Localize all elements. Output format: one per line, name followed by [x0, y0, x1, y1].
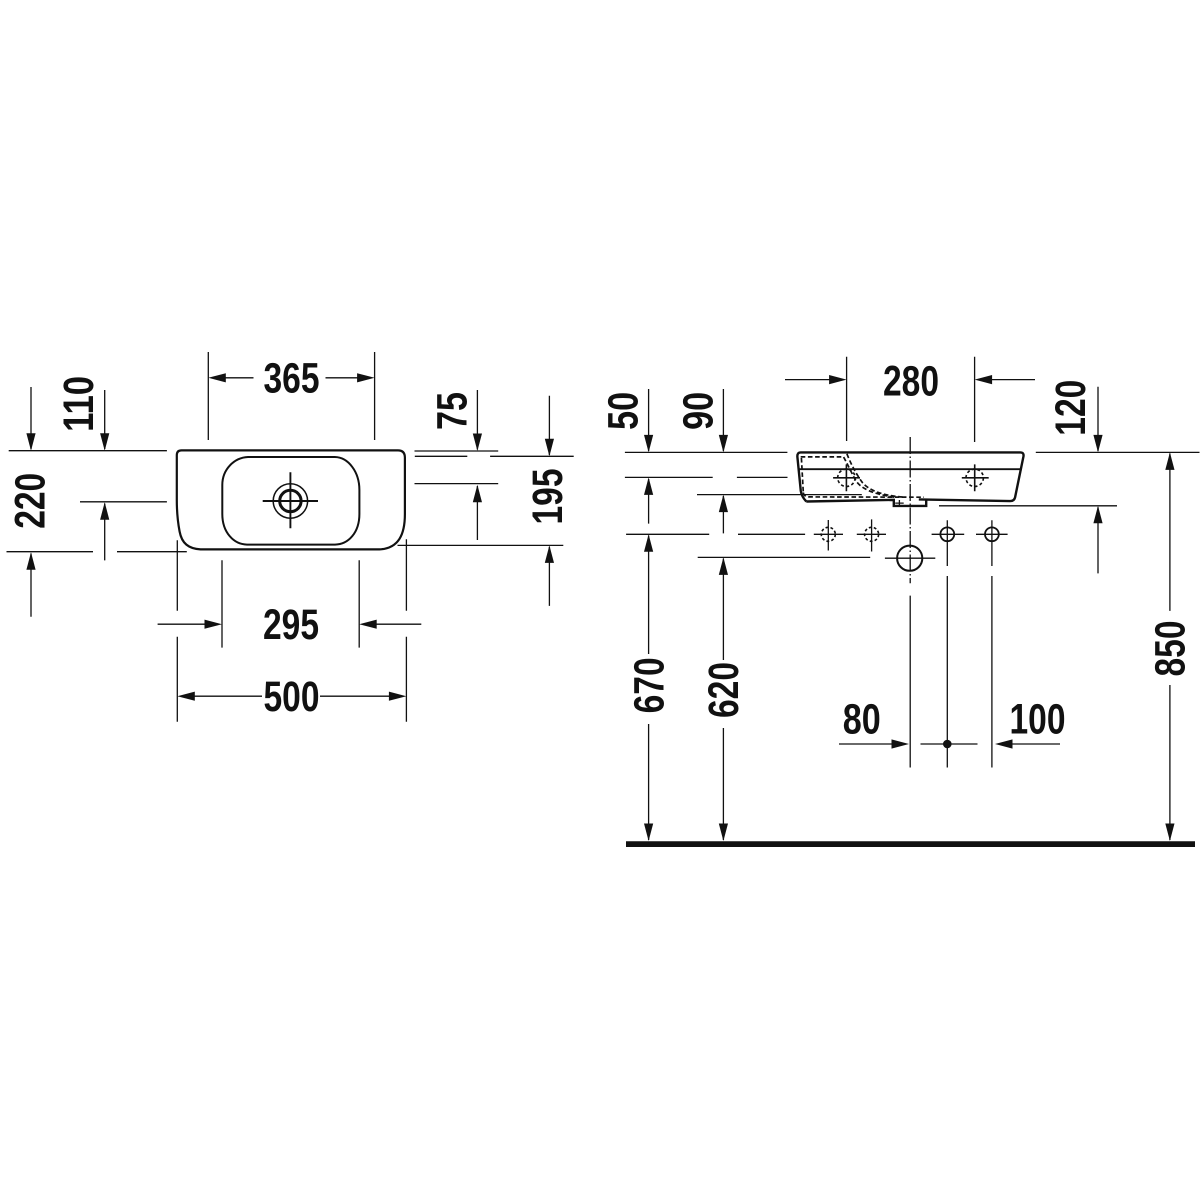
left faucet hole hidden circle: [838, 469, 855, 486]
left reference line L2 hole height: [80, 501, 167, 503]
dim 850 line: [1169, 454, 1171, 841]
arrowheads right view: [829, 375, 847, 384]
svg-text:110: 110: [55, 376, 103, 432]
hidden basin left dashed: [801, 458, 803, 493]
dim 50 line: [648, 389, 650, 524]
dim 280 extension lines: [847, 357, 975, 442]
drain height line: [698, 556, 871, 558]
right reference line C deck line: [415, 483, 499, 485]
drain vertical extension line: [909, 596, 911, 768]
basin inner bowl outline: [222, 457, 359, 545]
arrowheads left view: [100, 433, 109, 451]
svg-text:280: 280: [883, 357, 939, 405]
right reference line B inner top extended: [415, 455, 574, 457]
dim 100 arm: [1012, 743, 1060, 745]
faucet hole inner circle: [280, 490, 301, 511]
right faucet hole hidden circle: [966, 469, 983, 486]
svg-text:120: 120: [1047, 380, 1095, 436]
left reference line L3 bottom edge extended: [7, 551, 187, 553]
floor line: [626, 841, 1195, 847]
mounting hole 2 dashed circle: [865, 527, 879, 541]
dim 75 line: [476, 390, 478, 540]
50 reference line: [625, 476, 788, 478]
dim 110 lines: [104, 390, 106, 560]
drain circle horizontal arm: [885, 557, 935, 559]
dim 295 arms: [158, 623, 422, 625]
120 reference line: [939, 505, 1117, 507]
fixing hole 3 centerlines: [932, 520, 965, 767]
sink rim line: [798, 468, 1022, 470]
hidden bowl wall outer dashed curve: [847, 454, 903, 497]
dim 120 line: [1097, 387, 1099, 574]
sink bottom-left edge and drain tab: [806, 499, 926, 506]
dim 90 line: [722, 389, 724, 533]
hidden basin bottom dashed: [803, 493, 924, 498]
svg-text:195: 195: [524, 469, 572, 525]
svg-text:365: 365: [264, 355, 320, 403]
dim 280 arms: [785, 379, 1035, 381]
svg-text:100: 100: [1010, 695, 1066, 743]
dim 670 line: [648, 536, 650, 841]
hidden basin top dashed: [801, 456, 844, 458]
dim 365 extension lines: [208, 352, 374, 440]
dim 365 arms: [226, 377, 358, 379]
drain tab center mark: [895, 500, 904, 506]
svg-text:670: 670: [625, 657, 673, 713]
dim 80-100 mid segment: [921, 743, 978, 745]
dim 620 line: [722, 559, 724, 841]
fixing hole 4 centerlines: [976, 520, 1008, 767]
faucet hole crosshair: [263, 472, 318, 528]
dim 295 extension lines: [222, 560, 359, 647]
drain circle: [897, 546, 922, 571]
svg-text:75: 75: [429, 392, 477, 430]
fixing hole 4 circle: [985, 527, 999, 541]
dim 80 arm: [839, 743, 892, 745]
mounting hole 2 crosshair: [857, 519, 886, 551]
svg-text:50: 50: [600, 392, 648, 430]
svg-text:90: 90: [674, 392, 722, 430]
fixing hole 3 circle: [940, 527, 954, 541]
right reference line A top edge extended: [415, 450, 499, 452]
dim 500 arms: [194, 695, 389, 697]
hidden bowl wall inner dashed curve: [844, 457, 896, 497]
dim 500 extension lines: [177, 539, 406, 721]
mounting hole 1 dashed circle: [821, 527, 835, 541]
mounting hole 1 crosshair: [814, 520, 843, 551]
90 reference line: [697, 494, 862, 496]
svg-text:295: 295: [263, 601, 319, 649]
svg-text:850: 850: [1147, 621, 1195, 677]
basin outer outline (top view): [177, 450, 405, 549]
faucet hole outer circle: [273, 484, 307, 518]
svg-text:620: 620: [700, 662, 748, 718]
left faucet hole crosshair: [833, 464, 860, 491]
dim 195 line: [548, 396, 550, 606]
svg-text:220: 220: [6, 473, 54, 529]
left reference line L1 top edge extended: [9, 450, 167, 452]
vertical centerline through drain: [909, 437, 911, 583]
right faucet hole crosshair: [962, 464, 989, 491]
hole row centerline: [626, 533, 805, 535]
dim 220 lines: [30, 387, 32, 617]
wall top reference line: [625, 451, 1200, 453]
right reference line D inner bottom extended: [398, 544, 564, 546]
svg-text:80: 80: [843, 695, 881, 743]
sink front outline: [797, 452, 1023, 501]
svg-text:500: 500: [264, 673, 320, 721]
dim 80-100 dot: [943, 740, 952, 749]
